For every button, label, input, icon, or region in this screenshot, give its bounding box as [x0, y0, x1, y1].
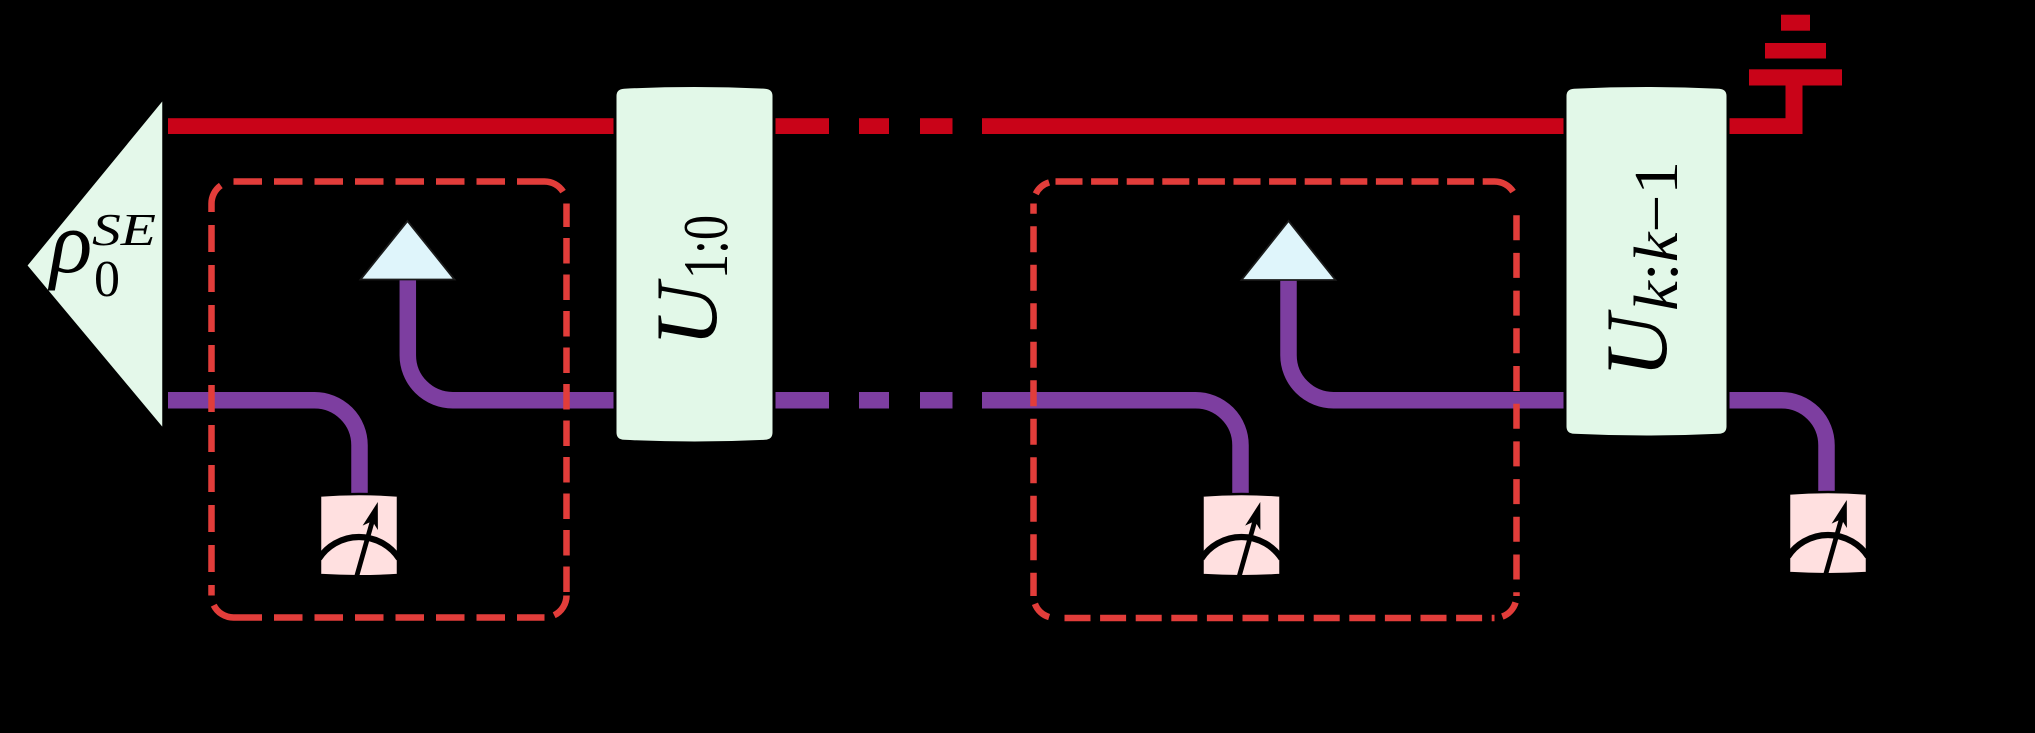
wire: purple dash 2	[920, 392, 953, 409]
label U_{k:k-1}	[1589, 161, 1691, 378]
wire: purple after U_{1:0}	[772, 392, 829, 409]
ground bar small	[1781, 15, 1810, 31]
wire: purple from U_{k:k-1} into final measurement	[1726, 400, 1827, 493]
wire: purple into measurement 2	[982, 400, 1241, 496]
wire: system line (red) to U_{k:k-1}	[982, 118, 1565, 134]
dashed instrument box 2	[1034, 182, 1517, 619]
svg-text:ρ: ρ	[47, 195, 92, 292]
wire: system line (red) U_{1:0} to dashes	[772, 118, 829, 134]
label U_{1:0}	[639, 215, 741, 347]
wire: system line (red) from rho to U_{1:0}	[168, 118, 615, 134]
wire: environment line (purple) from rho into measurement 1	[168, 400, 360, 496]
ground bar middle	[1765, 43, 1826, 59]
wire: system line red dash 1	[859, 118, 889, 134]
initial state triangle rho_0^SE	[26, 98, 164, 430]
ground bar large	[1749, 69, 1842, 85]
wire: purple from preparation triangle 2 to U_{k:k-1}	[1289, 278, 1567, 400]
unitary U_{k:k-1} box	[1565, 85, 1728, 437]
ground stem (red)	[1786, 85, 1803, 134]
measurement box 2	[1202, 494, 1282, 577]
measurement box 3 (final)	[1788, 492, 1868, 575]
wire: purple dash 1	[859, 392, 889, 409]
svg-text:0: 0	[94, 251, 120, 308]
measurement box 1	[319, 494, 399, 577]
preparation triangle 2 (light blue)	[1242, 221, 1336, 280]
unitary U_{1:0} box	[615, 85, 774, 443]
dashed instrument box 1	[212, 182, 567, 618]
wire: system line red dash 2	[920, 118, 953, 134]
preparation triangle 1 (light blue)	[361, 221, 455, 280]
wire: system line (red) U_{k:k-1} to ground	[1726, 118, 1803, 134]
svg-text:SE: SE	[92, 204, 156, 255]
wire: purple from preparation triangle 1 to U_{1:0}	[408, 278, 616, 400]
